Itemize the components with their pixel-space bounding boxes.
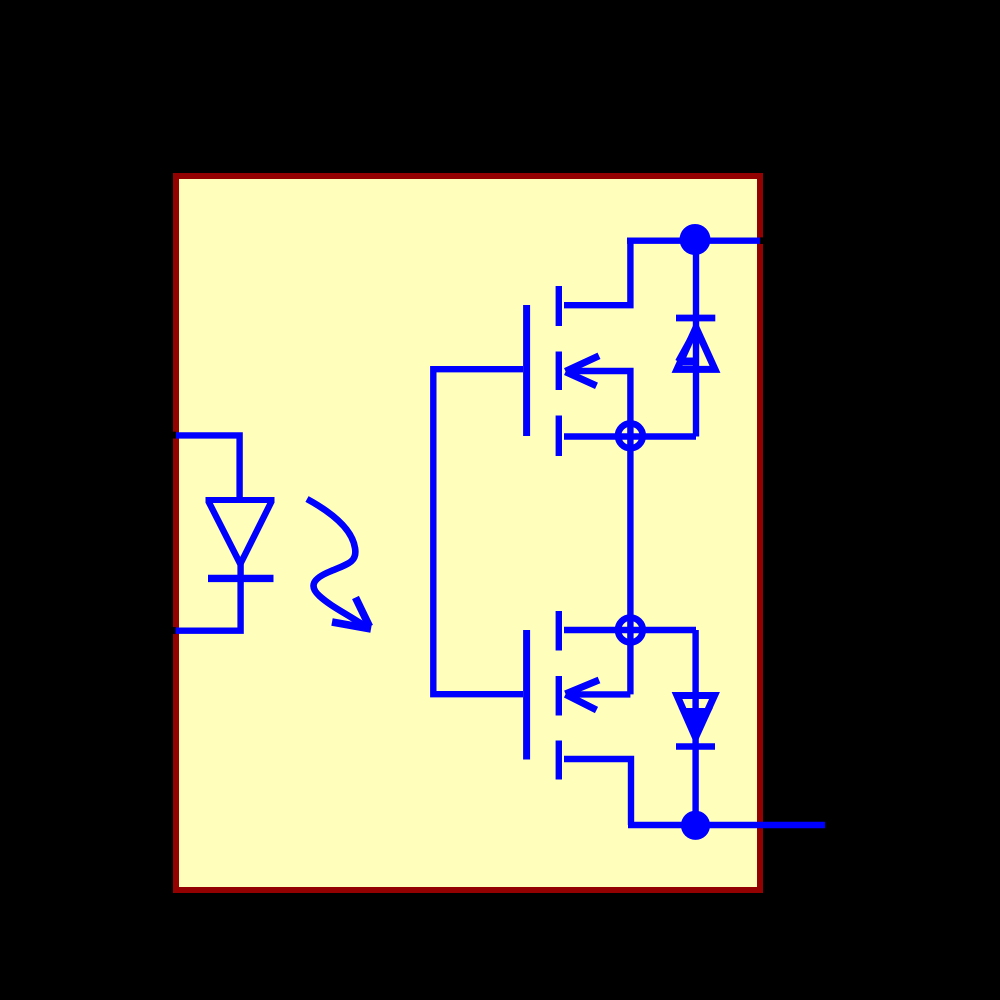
wire: top rail to drain terminal — [627, 237, 760, 243]
LED D1 cathode bar — [208, 575, 274, 582]
diode D2 body diode vertical wire — [693, 240, 699, 437]
junction dot drain terminal — [680, 224, 711, 255]
light emission squiggle arrow — [307, 499, 364, 626]
wire: Q1 drain up to top rail — [564, 241, 630, 306]
diode D2 inner bottom mark — [679, 358, 697, 366]
LED D1 triangle — [209, 502, 272, 565]
node: Q2 substrate connection circle — [618, 618, 643, 643]
transistor Q1 channel segment top — [556, 286, 562, 326]
border notch at drain terminal — [760, 237, 763, 244]
border notch at LED anode lead — [173, 432, 176, 439]
node: Q1 substrate connection circle — [618, 423, 643, 448]
LED D1 anode bar — [206, 497, 275, 503]
diode D3 inner fill mark — [682, 710, 710, 736]
wire: LED anode lead and corner down — [176, 435, 240, 500]
light arrow head barb lower — [332, 622, 371, 629]
diode D3 body diode vertical wire — [692, 630, 698, 825]
border notch at LED cathode lead — [173, 627, 176, 634]
transistor Q1 source arrow barb lower — [566, 372, 597, 386]
diode D2 cathode bar — [676, 315, 715, 322]
transistor Q1 channel segment middle — [556, 352, 562, 391]
diode D2 inner diagonal mark — [678, 337, 692, 362]
transistor Q2 gate bar — [523, 630, 530, 760]
wire: Q2 drain down to bottom rail — [564, 759, 631, 825]
diode D3 triangle — [677, 696, 715, 738]
wire: Q1 body connection horizontal through node — [564, 433, 696, 439]
wire: LED cathode lead with corner — [176, 562, 241, 631]
diode D2 triangle — [677, 328, 715, 370]
transistor Q2 channel segment middle — [556, 676, 562, 716]
wire: Q2 drain horizontal through node — [564, 627, 696, 633]
wire: Q2 source shaft — [571, 691, 630, 697]
package outline (relay body) — [173, 173, 763, 893]
transistor Q1 gate bar — [523, 305, 530, 436]
transistor Q1 source arrow barb upper — [566, 356, 600, 372]
transistor Q1 channel segment bottom — [556, 416, 562, 457]
junction dot source terminal — [681, 811, 710, 840]
diode D3 cathode bar — [676, 743, 715, 750]
transistor Q2 channel segment bottom — [556, 741, 562, 780]
transistor Q2 channel segment top — [556, 611, 562, 651]
wire: bottom rail to source terminal — [628, 822, 825, 828]
transistor Q2 source arrow barb upper — [566, 680, 600, 694]
light arrow head barb upper — [356, 598, 370, 627]
transistor Q2 source arrow barb lower — [566, 694, 597, 710]
wire: gate bus connecting both gates — [433, 369, 523, 694]
wire: Q1 source shaft and long vertical to Q2 — [571, 371, 630, 694]
